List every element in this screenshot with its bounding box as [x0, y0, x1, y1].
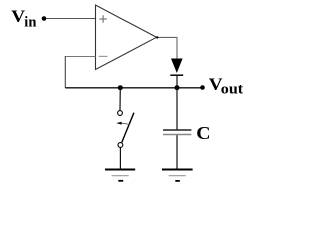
svg-text:in: in: [24, 15, 36, 31]
svg-text:out: out: [221, 81, 244, 97]
svg-text:V: V: [11, 7, 25, 26]
svg-text:C: C: [196, 124, 210, 144]
